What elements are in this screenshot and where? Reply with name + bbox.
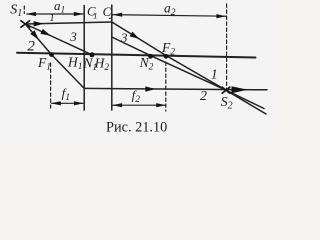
ray 3 incident segment S1 to N1 bbox=[25, 24, 92, 55]
optical axis bbox=[17, 53, 256, 58]
dimension line f2 bbox=[113, 104, 165, 106]
focal point F1 dot bbox=[49, 52, 54, 57]
svg-text:1: 1 bbox=[49, 13, 54, 24]
svg-text:3: 3 bbox=[120, 30, 128, 45]
principal plane C2 (vertical line) bbox=[111, 5, 113, 110]
a1 right arrowhead bbox=[74, 12, 84, 16]
ray 3 emergent segment from C2 through N2 to S2 and beyond bbox=[112, 37, 264, 109]
ray 1 refracted segment through F2 to S2 and beyond bbox=[112, 22, 266, 114]
f2 right arrowhead bbox=[156, 103, 166, 107]
svg-text:2: 2 bbox=[27, 38, 35, 54]
dimension line f1 bbox=[52, 102, 84, 104]
svg-text:2: 2 bbox=[200, 89, 207, 104]
dashed line below F2 bbox=[165, 62, 167, 111]
arrowhead ray 2 horizontal after S2 (large) bbox=[232, 86, 248, 93]
dimension line a1 bbox=[27, 13, 83, 15]
a1 left arrowhead bbox=[26, 12, 36, 16]
principal plane C1 (vertical line) bbox=[83, 6, 85, 111]
svg-text:3: 3 bbox=[69, 29, 77, 44]
svg-text:Рис. 21.10: Рис. 21.10 bbox=[106, 120, 167, 136]
arrowhead ray 1 near S1 bbox=[34, 21, 44, 26]
svg-text:1: 1 bbox=[211, 67, 218, 82]
focal point F2 dot bbox=[164, 54, 169, 59]
dimension line a2 bbox=[113, 15, 226, 17]
ray 1 incident segment S1 to C2 bbox=[25, 22, 112, 24]
ray 2 incident segment S1 through F1 to plane C1 bbox=[25, 24, 84, 88]
f1 right arrowhead bbox=[74, 101, 84, 105]
nodal point N2 dot bbox=[148, 54, 153, 59]
dashed tick below S1 for a1 bbox=[23, 6, 25, 14]
dashed line below F1 bbox=[50, 63, 52, 108]
image point S2 x-mark bbox=[222, 87, 230, 93]
source point S1 x-mark bbox=[21, 21, 30, 27]
nodal point N1 dot bbox=[90, 52, 95, 57]
arrowhead ray 2 near S1 bbox=[30, 30, 39, 40]
arrowhead ray 3 near S1 bbox=[40, 29, 50, 36]
f2 left arrowhead bbox=[112, 103, 122, 107]
arrowhead ray 1 refracted segment bbox=[130, 32, 140, 39]
dashed line above S2 bbox=[226, 4, 228, 89]
a2 left arrowhead bbox=[112, 13, 122, 17]
ray 2 emergent horizontal segment to right edge bbox=[84, 88, 267, 89]
f1 left arrowhead bbox=[51, 101, 61, 105]
arrowhead ray 2 horizontal mid bbox=[145, 86, 155, 91]
a2 right arrowhead bbox=[216, 14, 226, 18]
